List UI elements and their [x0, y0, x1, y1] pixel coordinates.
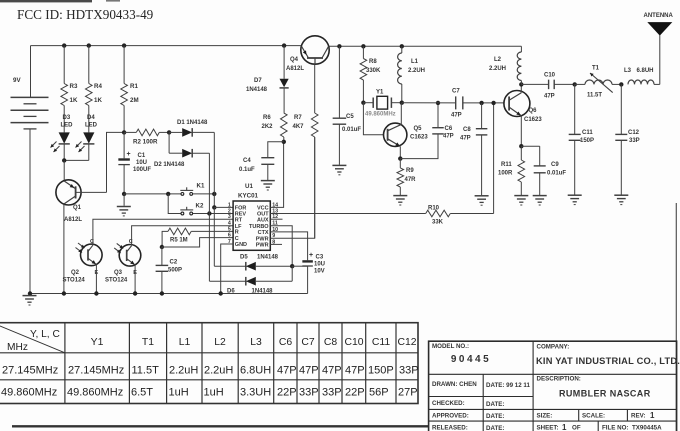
wire PWR pin 9 riser to R7 — [270, 137, 314, 238]
svg-text:R4: R4 — [94, 83, 102, 90]
svg-text:CTX: CTX — [258, 230, 269, 236]
svg-text:SCALE:: SCALE: — [582, 413, 605, 420]
node Y1 right / L1 / Q5 collector — [400, 101, 404, 105]
wire LED join to Q1 — [64, 159, 89, 161]
svg-text:1N4148: 1N4148 — [257, 255, 279, 261]
svg-text:2.2UH: 2.2UH — [489, 66, 506, 72]
capacitor C3 10U 10V — [302, 260, 313, 262]
svg-text:SIZE:: SIZE: — [537, 413, 553, 420]
switch K2 — [181, 212, 184, 215]
svg-text:C12: C12 — [397, 337, 416, 348]
svg-text:1uH: 1uH — [204, 387, 224, 399]
wire K2 branch — [168, 194, 181, 214]
svg-text:C9: C9 — [551, 162, 559, 168]
svg-text:RUMBLER NASCAR: RUMBLER NASCAR — [559, 389, 651, 399]
wire oscillator node to C7 — [402, 102, 456, 104]
svg-text:47P: 47P — [322, 365, 342, 377]
svg-text:6.5T: 6.5T — [131, 387, 153, 399]
wire top supply rail right segment — [329, 45, 521, 47]
svg-text:L2: L2 — [214, 337, 226, 348]
svg-text:1: 1 — [228, 202, 231, 208]
svg-text:ANTENNA: ANTENNA — [644, 13, 674, 19]
svg-text:MHz: MHz — [7, 342, 28, 353]
svg-text:MODEL NO.:: MODEL NO.: — [432, 343, 469, 350]
ground below C9 — [533, 195, 547, 197]
svg-text:1K: 1K — [94, 97, 102, 104]
node R1/R2/C1/Q1 — [122, 130, 126, 134]
stub AUX pin 12 — [270, 218, 282, 220]
ground below R9 — [393, 195, 407, 197]
svg-text:2.2UH: 2.2UH — [408, 68, 425, 74]
svg-text:27.145MHz: 27.145MHz — [2, 365, 58, 377]
svg-text:GND: GND — [235, 242, 247, 248]
svg-text:C: C — [235, 236, 239, 242]
wire Q4 base to R7 — [314, 64, 316, 113]
node C12 — [619, 82, 623, 86]
svg-text:0.1uF: 0.1uF — [239, 167, 255, 173]
capacitor C7 47P in series — [455, 96, 457, 109]
node R5/C2 — [160, 245, 164, 249]
svg-text:C8: C8 — [324, 337, 338, 348]
ground below C1 — [123, 194, 125, 206]
svg-text:R8: R8 — [369, 59, 377, 65]
svg-text:R6: R6 — [263, 115, 271, 121]
svg-text:CHECKED:: CHECKED: — [432, 400, 465, 407]
resistor R4 1K — [87, 43, 91, 47]
wire Y1 left to Q5 base — [363, 103, 383, 135]
svg-text:FOR: FOR — [235, 206, 247, 212]
svg-text:1: 1 — [650, 411, 655, 420]
svg-text:2K2: 2K2 — [262, 124, 274, 130]
svg-text:STO124: STO124 — [63, 278, 86, 284]
resistor R3 1K — [62, 43, 66, 47]
transistor Q6 C1623 — [504, 91, 530, 117]
transistor Q1 A812L — [56, 180, 81, 205]
svg-text:PWR: PWR — [256, 243, 269, 249]
stub PWR pin 8 — [270, 243, 282, 245]
wire C2 node to C pin 6 — [162, 238, 233, 247]
svg-text:22P: 22P — [345, 387, 365, 399]
resistor R11 100R — [520, 146, 522, 160]
svg-text:K1: K1 — [197, 183, 205, 190]
inductor L3 6.8UH — [628, 80, 654, 84]
svg-text:L1: L1 — [179, 337, 191, 348]
svg-text:C: C — [90, 239, 94, 245]
svg-text:C4: C4 — [243, 158, 251, 164]
svg-text:R9: R9 — [406, 168, 414, 174]
svg-text:C11: C11 — [582, 130, 593, 136]
resistor R2 100R — [124, 131, 136, 133]
svg-text:RELEASED:: RELEASED: — [432, 425, 468, 431]
svg-text:Q6: Q6 — [529, 108, 538, 114]
svg-text:1K: 1K — [70, 97, 78, 104]
capacitor C9 0.01uF — [521, 145, 539, 147]
wire D1 cathode down through K1 FOR to D5 — [213, 132, 215, 194]
wire GND pin 7 to rail — [221, 244, 233, 294]
phototransistor Q2 STO124 — [81, 244, 103, 266]
svg-text:47P: 47P — [460, 136, 471, 142]
svg-text:U1: U1 — [245, 183, 253, 190]
crystal Y1 49.860MHz — [361, 101, 365, 105]
svg-text:A812L: A812L — [64, 217, 82, 223]
svg-text:Y1: Y1 — [376, 90, 384, 96]
ground at battery rail — [28, 291, 32, 295]
svg-text:C7: C7 — [452, 89, 460, 95]
svg-text:C6: C6 — [279, 337, 293, 348]
svg-text:D6: D6 — [227, 289, 235, 295]
svg-text:1: 1 — [562, 423, 567, 431]
svg-text:3.3UH: 3.3UH — [240, 387, 271, 399]
svg-text:A812L: A812L — [286, 66, 304, 72]
wire Q1 collector to ground rail — [63, 204, 65, 294]
svg-text:Q3: Q3 — [114, 270, 123, 276]
svg-text:T1: T1 — [142, 337, 154, 348]
svg-text:KIN YAT INDUSTRIAL CO., LT: KIN YAT INDUSTRIAL CO., LTD. — [536, 356, 680, 366]
svg-text:3: 3 — [228, 214, 231, 220]
svg-text:K2: K2 — [196, 203, 204, 210]
svg-text:47P: 47P — [299, 365, 319, 377]
svg-text:R: R — [235, 230, 239, 236]
wire VCC pin 14 riser to R6 node — [270, 142, 283, 208]
svg-text:33P: 33P — [299, 387, 319, 399]
svg-text:500P: 500P — [168, 268, 182, 274]
svg-text:LED: LED — [61, 123, 74, 129]
svg-text:6: 6 — [228, 233, 231, 239]
svg-text:C8: C8 — [463, 127, 471, 133]
svg-text:DATE:: DATE: — [486, 401, 504, 408]
node K2 right on REV line — [207, 211, 211, 215]
svg-text:1N4148: 1N4148 — [252, 289, 274, 295]
top-left scan streak — [0, 0, 92, 2]
svg-text:D4: D4 — [87, 115, 95, 121]
svg-text:100UF: 100UF — [133, 167, 151, 173]
svg-text:PWR: PWR — [256, 236, 269, 242]
svg-text:C1623: C1623 — [410, 135, 428, 141]
svg-text:49.860MHz: 49.860MHz — [1, 387, 57, 399]
svg-text:FCC ID: HDTX90433-49: FCC ID: HDTX90433-49 — [17, 7, 154, 22]
node K1 right on FOR line — [212, 192, 216, 196]
svg-text:APPROVED:: APPROVED: — [432, 413, 469, 420]
wire collector node to C10 — [521, 83, 548, 85]
svg-text:1N4148: 1N4148 — [246, 87, 268, 93]
svg-text:+: + — [127, 151, 131, 158]
svg-text:RT: RT — [235, 217, 243, 223]
svg-text:DATE: 99 12 11: DATE: 99 12 11 — [486, 382, 530, 389]
svg-text:R2 100R: R2 100R — [133, 139, 158, 146]
svg-text:T1: T1 — [592, 66, 600, 72]
capacitor C6 47P — [432, 127, 444, 129]
svg-text:C: C — [129, 239, 133, 245]
svg-text:TURBO: TURBO — [249, 224, 269, 230]
resistor R8 330K — [361, 44, 365, 48]
svg-text:6.8UH: 6.8UH — [240, 365, 271, 377]
svg-text:1uH: 1uH — [169, 387, 189, 399]
inductor L1 2.2UH — [400, 44, 404, 48]
capacitor C10 47P in series — [548, 80, 550, 90]
svg-text:OF: OF — [572, 425, 581, 431]
svg-text:C1623: C1623 — [524, 117, 542, 123]
wire Q3 collector to LF pin 4 — [132, 226, 234, 246]
svg-text:330K: 330K — [366, 68, 381, 74]
node R10 riser on base line — [491, 101, 495, 105]
title block dividers — [429, 341, 677, 431]
svg-text:STO124: STO124 — [105, 278, 128, 284]
wire OUT pin 13 line — [270, 213, 425, 215]
svg-text:C12: C12 — [628, 130, 640, 136]
diode D1 1N4148 — [169, 131, 182, 133]
svg-text:FILE NO:: FILE NO: — [602, 425, 628, 431]
svg-text:150P: 150P — [580, 138, 594, 144]
resistor R7 4K7 — [311, 113, 318, 137]
svg-text:33P: 33P — [629, 138, 640, 144]
resistor R1 2M — [122, 43, 126, 47]
variable inductor T1 11.5T — [575, 83, 585, 85]
svg-text:47P: 47P — [277, 365, 297, 377]
capacitor C1 10U 100UF — [123, 132, 125, 158]
svg-text:C2: C2 — [170, 260, 178, 266]
transistor Q4 A812L — [301, 36, 329, 64]
node C1 ground junction — [122, 192, 126, 196]
wire Q1 base riser to R1 node — [107, 132, 125, 192]
battery BT 9V — [30, 46, 32, 98]
svg-text:4K7: 4K7 — [293, 124, 305, 130]
svg-text:150P: 150P — [368, 365, 394, 377]
svg-text:49.860MHz: 49.860MHz — [67, 387, 123, 399]
inductor L2 2.2UH — [520, 46, 522, 52]
wire TURBO pin 11 to diode node — [270, 226, 292, 267]
resistor R9 47R — [399, 159, 401, 168]
switch K1 — [181, 193, 184, 196]
wire CTX pin 10 to C3 — [270, 232, 307, 260]
ground below C12 — [614, 194, 628, 196]
svg-text:TX90445A: TX90445A — [632, 425, 662, 431]
capacitor C5 0.01uF — [337, 44, 341, 48]
svg-text:47P: 47P — [345, 365, 365, 377]
svg-text:DESCRIPTION:: DESCRIPTION: — [537, 376, 581, 383]
svg-text:DATE:: DATE: — [486, 413, 504, 420]
wire C1 node to K1 — [124, 193, 181, 195]
svg-text:56P: 56P — [369, 387, 389, 399]
resistor R5 1M — [162, 231, 168, 247]
svg-text:D3: D3 — [63, 115, 71, 121]
svg-text:0.01uF: 0.01uF — [547, 171, 566, 177]
wire bottom ground rail — [30, 293, 308, 295]
bottom frame line — [12, 425, 429, 427]
svg-text:COMPANY:: COMPANY: — [537, 344, 570, 351]
svg-text:L2: L2 — [494, 57, 502, 63]
svg-text:C3: C3 — [316, 255, 324, 261]
wire Q2 collector to RT pin 3 — [93, 219, 233, 245]
svg-text:5: 5 — [228, 226, 231, 232]
antenna — [659, 35, 661, 84]
svg-text:C7: C7 — [301, 337, 315, 348]
svg-text:Q4: Q4 — [290, 57, 299, 63]
svg-text:DATE:: DATE: — [486, 425, 504, 431]
svg-text:VCC: VCC — [257, 206, 269, 212]
wire top supply rail left segment — [31, 45, 301, 47]
svg-text:AUX: AUX — [257, 217, 269, 223]
LED D4 — [83, 132, 94, 143]
svg-text:C10: C10 — [344, 337, 363, 348]
svg-text:KYC01: KYC01 — [238, 193, 259, 200]
svg-text:10U: 10U — [136, 160, 147, 166]
svg-text:C5: C5 — [346, 114, 354, 120]
wire R10 riser to Q6 base line — [493, 103, 495, 214]
capacitor C8 47P — [479, 101, 483, 105]
svg-text:C11: C11 — [372, 337, 391, 348]
svg-text:DRAWN: CHEN: DRAWN: CHEN — [432, 381, 477, 388]
svg-text:Q2: Q2 — [71, 270, 80, 276]
wire Q2 emitter to rail — [95, 265, 97, 294]
svg-text:+: + — [309, 252, 313, 259]
svg-text:SHEET:: SHEET: — [537, 425, 559, 431]
svg-text:9V: 9V — [13, 77, 21, 84]
frequency table grid — [0, 323, 418, 404]
title block outer box — [429, 341, 677, 431]
svg-text:R11: R11 — [501, 162, 512, 168]
svg-text:Y1: Y1 — [91, 337, 104, 348]
svg-text:L1: L1 — [411, 59, 419, 65]
svg-text:6.8UH: 6.8UH — [637, 68, 654, 74]
resistor R6 2K2 — [281, 113, 288, 137]
phototransistor Q3 STO124 — [119, 245, 141, 267]
svg-text:D7: D7 — [254, 78, 262, 84]
svg-text:Q5: Q5 — [414, 126, 423, 132]
transistor Q5 C1623 — [384, 123, 407, 146]
diode D6 1N4148 — [209, 280, 245, 282]
diode D7 1N4148 — [282, 43, 286, 47]
svg-text:10U: 10U — [314, 262, 325, 268]
svg-text:47R: 47R — [405, 177, 417, 183]
svg-text:2.2uH: 2.2uH — [169, 365, 198, 377]
svg-text:33K: 33K — [432, 220, 444, 226]
svg-text:27P: 27P — [398, 387, 418, 399]
wire Q6 collector to node — [520, 84, 522, 92]
ground below C8 — [475, 195, 489, 197]
wire FOR pin 1 stub — [214, 206, 233, 208]
wire Q5 collector to node — [400, 103, 402, 125]
wire Q5 emitter node — [399, 146, 401, 158]
capacitor C11 150P — [574, 84, 576, 134]
svg-text:D1 1N4148: D1 1N4148 — [177, 120, 208, 126]
wire Q5 emitter to C6 bottom — [400, 134, 438, 159]
svg-text:L3: L3 — [624, 68, 632, 74]
svg-text:D5: D5 — [240, 255, 248, 261]
capacitor C4 0.1uF — [268, 142, 284, 158]
diode D5 1N4148 — [214, 265, 246, 267]
svg-text:R3: R3 — [70, 83, 78, 90]
svg-text:2.2uH: 2.2uH — [204, 365, 233, 377]
svg-text:90445: 90445 — [451, 354, 491, 365]
node D5/D6/TURBO/CTX — [290, 264, 294, 268]
svg-text:11.5T: 11.5T — [132, 365, 160, 377]
node R2/D1/D2 — [167, 130, 171, 134]
svg-text:47P: 47P — [443, 134, 454, 140]
ground below C5 — [332, 164, 346, 166]
svg-text:Q1: Q1 — [73, 205, 82, 211]
svg-text:47P: 47P — [451, 113, 462, 119]
svg-text:0.01uF: 0.01uF — [342, 127, 361, 133]
svg-text:REV:: REV: — [631, 413, 645, 420]
diode D2 1N4148 — [168, 132, 170, 153]
svg-text:R5 1M: R5 1M — [170, 238, 188, 244]
LED D3 — [59, 132, 70, 143]
svg-text:Y, L, C: Y, L, C — [30, 329, 60, 340]
svg-text:L3: L3 — [250, 337, 262, 348]
svg-text:33P: 33P — [399, 365, 419, 377]
ground below C4 — [261, 180, 275, 182]
svg-text:49.860MHz: 49.860MHz — [365, 112, 396, 118]
wire D2 cathode down through K2 REV to D6 — [208, 153, 210, 213]
svg-text:D2 1N4148: D2 1N4148 — [154, 162, 185, 168]
svg-text:LED: LED — [85, 123, 98, 129]
svg-text:2M: 2M — [130, 97, 139, 104]
capacitor C12 33P — [620, 84, 622, 134]
svg-text:11.5T: 11.5T — [587, 93, 602, 99]
svg-text:R10: R10 — [428, 206, 440, 212]
svg-text:C1: C1 — [138, 153, 146, 159]
svg-text:47P: 47P — [544, 94, 555, 100]
wire Q6 emitter node — [520, 116, 522, 147]
ground below R11 — [514, 195, 528, 197]
svg-text:33P: 33P — [322, 387, 342, 399]
svg-text:22P: 22P — [277, 387, 297, 399]
drawing frame right edge — [675, 203, 677, 431]
wire Q3 emitter to rail — [134, 265, 136, 294]
IC U1 KYC01 box — [233, 201, 270, 250]
svg-text:C6: C6 — [445, 126, 453, 132]
svg-text:100R: 100R — [498, 171, 513, 177]
svg-text:27.145MHz: 27.145MHz — [68, 365, 124, 377]
resistor R10 33K — [426, 210, 451, 217]
capacitor C2 500P — [161, 247, 163, 265]
svg-text:R7: R7 — [294, 115, 302, 121]
svg-text:10V: 10V — [314, 269, 325, 275]
svg-text:R1: R1 — [130, 83, 138, 90]
svg-text:C10: C10 — [544, 73, 556, 79]
node C11 — [573, 82, 577, 86]
ground below C11 — [568, 194, 582, 196]
